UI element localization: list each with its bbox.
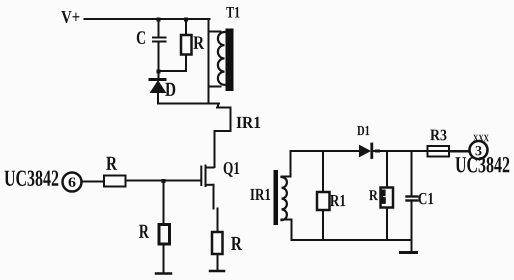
svg-text:IR1: IR1 — [250, 185, 271, 204]
svg-text:UC3842: UC3842 — [455, 152, 510, 177]
svg-text:R: R — [106, 153, 117, 175]
svg-text:R3: R3 — [430, 127, 447, 144]
svg-text:V+: V+ — [61, 7, 80, 27]
svg-text:IR1: IR1 — [236, 113, 261, 132]
svg-text:R1: R1 — [330, 191, 346, 210]
svg-text:R: R — [139, 221, 149, 243]
svg-text:R: R — [231, 233, 242, 255]
svg-text:XXX: XXX — [473, 133, 490, 144]
svg-text:R: R — [193, 33, 204, 54]
svg-text:T1: T1 — [226, 4, 240, 21]
svg-text:C1: C1 — [418, 189, 434, 208]
svg-text:D1: D1 — [357, 124, 370, 139]
svg-text:C: C — [136, 28, 146, 49]
svg-text:UC3842: UC3842 — [4, 166, 59, 191]
svg-text:Q1: Q1 — [223, 158, 240, 178]
svg-text:6: 6 — [68, 176, 76, 191]
svg-text:R: R — [369, 188, 378, 204]
svg-text:D: D — [165, 79, 176, 101]
